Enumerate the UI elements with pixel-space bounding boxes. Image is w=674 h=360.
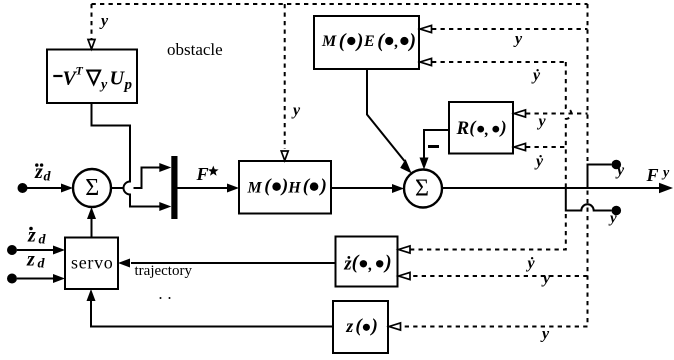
- svg-text:T: T: [76, 63, 84, 77]
- wire: dashed R input 1 (y): [526, 113, 588, 115]
- decorative stray dots from scan: [160, 297, 162, 299]
- svg-text:y: y: [513, 31, 523, 48]
- arrow into sum1 from left: [61, 184, 73, 193]
- node: ydot measurement dot: [612, 206, 622, 216]
- svg-text:z: z: [345, 316, 353, 336]
- arrow into sum2 from R (minus input): [420, 158, 429, 170]
- arrow into H box (F-star): [227, 184, 239, 193]
- svg-text:d: d: [44, 170, 52, 185]
- svg-text:F: F: [646, 165, 659, 185]
- wire: H box output to sum 2: [331, 187, 393, 189]
- label: F^y output: [646, 165, 671, 185]
- arrow into servo from z_d: [53, 274, 65, 283]
- label: F-star: [196, 164, 219, 184]
- block: zdot box zdot(.,.): [336, 237, 398, 287]
- wire: E box output down then diagonal into sum 2: [367, 69, 405, 161]
- node: input dot zdotdot_d: [18, 183, 28, 193]
- wire: V-box output down, corner, down with hop arc around sum line, to lower prong: [92, 103, 162, 207]
- wire: zdotdot_d input into sum 1: [27, 187, 62, 189]
- open arrow into E box input 1: [420, 25, 432, 32]
- wire: R box output left then down into sum 2 (minus): [424, 130, 449, 160]
- open arrow into V box top: [88, 40, 95, 50]
- open arrow into zdot box input 2: [399, 272, 411, 279]
- svg-text:U: U: [110, 68, 126, 90]
- svg-text:R: R: [456, 118, 470, 139]
- wire: sum 2 output to F^y arrow: [442, 187, 660, 189]
- svg-text:): ): [355, 30, 364, 52]
- svg-text:): ): [383, 252, 392, 274]
- arrow into sum2 from H: [392, 184, 404, 193]
- svg-text:F: F: [196, 164, 209, 184]
- wire: servo top output up into sum 1: [91, 217, 93, 238]
- svg-text:y: y: [537, 113, 547, 130]
- wire: z_d input to servo: [17, 278, 54, 280]
- open arrow into zdot box input 1: [399, 246, 411, 253]
- arrow into servo from trajectory line: [118, 259, 130, 268]
- svg-text:y: y: [541, 270, 551, 287]
- wire: dashed branch to zdot-box input 2 (y): [410, 275, 588, 277]
- svg-text:ẏ: ẏ: [526, 255, 536, 272]
- block: V box (-V^T grad_y U_p): [47, 50, 137, 104]
- wire: zdot_d input to servo: [17, 249, 54, 251]
- open arrow into R box input 1: [514, 110, 526, 117]
- wire: sum1 output segment before hop: [111, 187, 124, 189]
- svg-text:y: y: [99, 77, 108, 92]
- arrow into sum1 from below: [87, 207, 96, 219]
- svg-text:Σ: Σ: [85, 175, 99, 201]
- svg-text:): ): [370, 315, 378, 336]
- svg-text:y: y: [291, 102, 301, 119]
- arrow into servo from zdot_d: [53, 246, 65, 255]
- wire: dashed drop at x=91.5 into V box: [91, 4, 93, 39]
- svg-text:y: y: [615, 162, 625, 179]
- open arrow into E box input 2: [420, 58, 432, 65]
- open arrow into R box input 2: [514, 143, 526, 150]
- svg-text:): ): [499, 117, 507, 138]
- wire: trajectory line from zdot box to servo: [131, 262, 336, 264]
- wire: dashed E input 1 (y): [432, 28, 588, 30]
- node: y measurement dot: [612, 160, 622, 170]
- wire: dashed vertical ydot bus x=565.8 lower, corner to zdot-box input: [410, 214, 566, 250]
- arrow upper prong into bar: [159, 163, 171, 172]
- summing junction sum1: [73, 169, 111, 207]
- wire: z box output left, corner up into servo bottom: [91, 301, 333, 327]
- svg-text:y: y: [540, 326, 550, 343]
- svg-text:M: M: [247, 179, 263, 196]
- wire: dashed E input 2 (ydot) corner at x=565.8: [432, 61, 566, 63]
- arrow into sum2 from E (diagonal): [400, 159, 411, 173]
- wire: sum1 output segment after hop, corner up to upper prong: [134, 168, 162, 189]
- svg-text:d: d: [38, 257, 46, 272]
- svg-text:): ): [407, 30, 416, 52]
- svg-text:): ): [280, 176, 288, 197]
- svg-text:E: E: [363, 33, 375, 50]
- svg-text:): ): [319, 176, 327, 197]
- wire: solid y tap at x=587.5 up from main line to y dot: [588, 165, 612, 189]
- svg-text:trajectory: trajectory: [135, 263, 193, 279]
- block: servo box: [65, 238, 118, 290]
- svg-text:M: M: [321, 33, 337, 50]
- wire: solid ydot tap at x=565.8 down from main line, hump over y bus, to ydot dot: [566, 188, 612, 211]
- svg-text:ẏ: ẏ: [531, 67, 541, 84]
- svg-text:H: H: [287, 179, 301, 196]
- wire: dashed R input 2 (ydot): [526, 146, 566, 148]
- arrow lower prong into bar: [159, 202, 171, 211]
- block: E box M(.)E(.,.): [314, 16, 419, 69]
- svg-text:ẏ: ẏ: [534, 153, 544, 170]
- node: input dot zdot_d: [7, 245, 17, 255]
- svg-text:z: z: [26, 249, 35, 271]
- open arrow into z box input: [389, 323, 401, 330]
- label: minus sign at sum2: [428, 145, 439, 148]
- svg-text:,: ,: [394, 34, 399, 51]
- svg-text:d: d: [39, 233, 47, 248]
- svg-text:,: ,: [368, 257, 373, 274]
- svg-text:y: y: [99, 13, 109, 30]
- svg-text:p: p: [123, 77, 133, 93]
- arrow into servo from below: [87, 289, 96, 301]
- wire: top feedback dashed horizontal y=4 from x=91.5 to x=587.5: [92, 3, 588, 5]
- svg-text:servo: servo: [71, 253, 114, 273]
- arrow output F^y: [659, 183, 673, 193]
- summing junction sum2: [404, 170, 442, 208]
- junction bar: thick vertical bar: [171, 156, 177, 219]
- svg-text:y: y: [661, 166, 670, 181]
- open arrow into H box top: [281, 151, 288, 161]
- svg-text:obstacle: obstacle: [167, 40, 223, 59]
- wire: dashed drop at x=284.7 into H box: [284, 4, 286, 149]
- wire: dashed vertical ydot bus x=565.8 upper with hop over y line: [566, 62, 572, 187]
- wire: dashed vertical y bus x=587.5 upper: [587, 4, 589, 161]
- svg-text:,: ,: [484, 122, 489, 139]
- wire: dashed vertical y bus x=587.5 lower with branches: [400, 191, 588, 327]
- wire: bar output to H box (F-star): [178, 187, 229, 189]
- label: zdot_d: [27, 225, 47, 248]
- svg-text:Σ: Σ: [415, 176, 429, 202]
- block: z box z(.): [333, 301, 388, 353]
- label: zdotdot_d: [34, 161, 52, 185]
- block: R box R(.,.): [449, 102, 513, 154]
- block: H box M(.)H(.): [239, 161, 331, 214]
- label: z_d: [26, 249, 46, 272]
- node: input dot z_d: [7, 274, 17, 284]
- svg-text:ẏ: ẏ: [608, 211, 617, 227]
